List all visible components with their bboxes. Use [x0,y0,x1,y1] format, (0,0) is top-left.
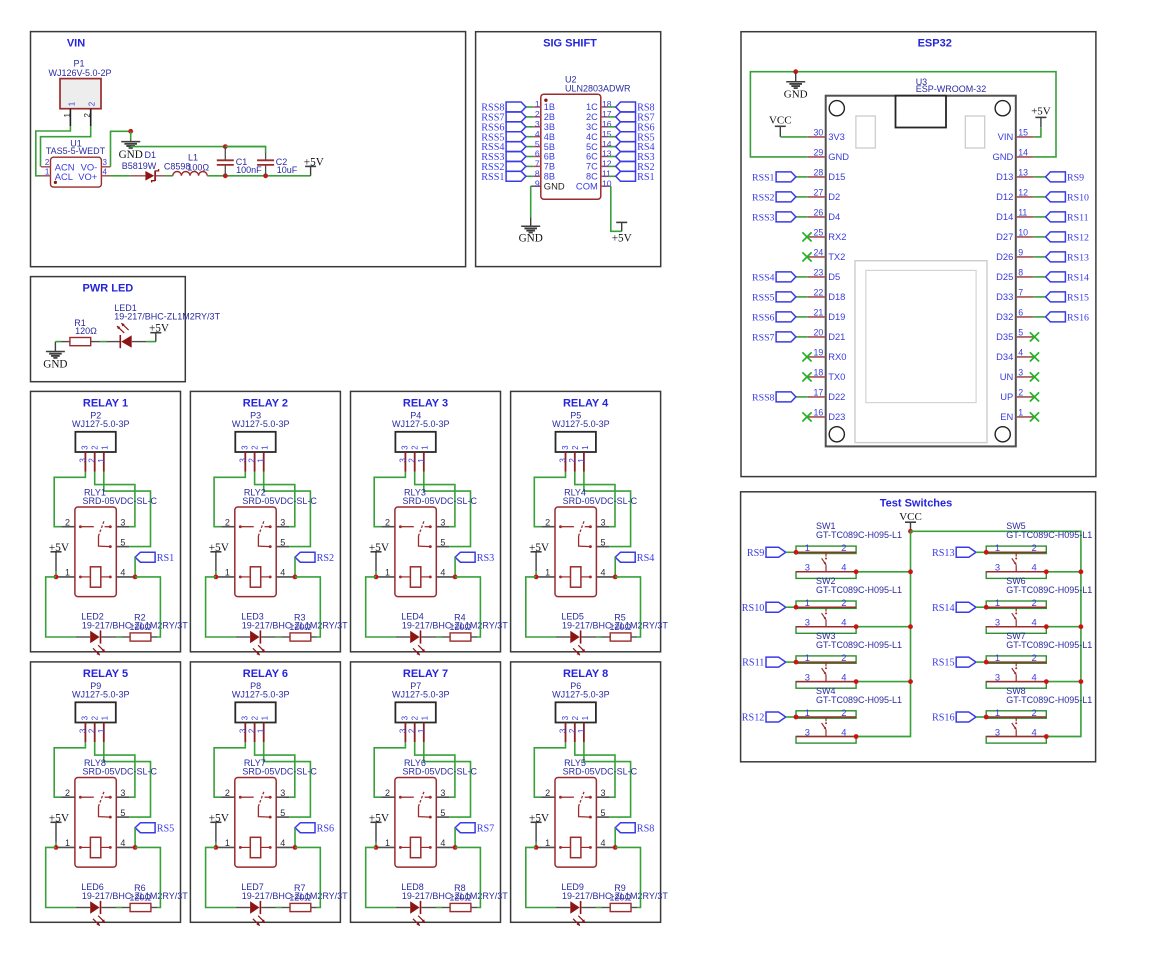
wire P7.2 to RLY6.3 [415,742,455,797]
svg-text:2: 2 [88,458,97,463]
RLY6 pin 4 [436,838,455,848]
wire top rail caps to ground [131,146,266,148]
U2 pin 15 4C [586,129,612,142]
svg-text:ACL: ACL [55,171,73,182]
net flag RS12 [742,712,786,724]
switch SW1 GT-TC089C-H095-L1 [796,521,902,578]
LED LED8 19-217/BHC-ZL1M2RY/3T [396,882,508,926]
P8 pin 3 [238,722,247,742]
svg-text:D18: D18 [828,291,845,302]
resistor R7 120ohm [281,883,317,911]
svg-text:RS10: RS10 [742,603,765,614]
svg-text:RS6: RS6 [317,823,335,834]
wire RS2 to pin4 [294,557,296,577]
svg-text:4: 4 [841,562,846,573]
node +5V junction [214,845,219,850]
svg-text:WJ127-5.0-3P: WJ127-5.0-3P [392,690,450,700]
svg-text:SRD-05VDC-SL-C: SRD-05VDC-SL-C [242,496,317,506]
svg-text:26: 26 [814,208,824,218]
svg-text:1: 1 [385,838,390,848]
svg-text:RS15: RS15 [932,658,955,669]
power symbol +5V (RELAY 8) [529,812,550,842]
svg-text:+5V: +5V [1031,106,1051,118]
svg-text:D14: D14 [996,211,1013,222]
net flag RS11 [742,657,786,669]
wire SW3.4 to VCC rail [856,681,910,683]
net flag RS5 [616,132,655,144]
no-connect X pin 2 [1030,392,1039,401]
net flag RSS7 [481,112,526,124]
wire LED to R [436,636,441,638]
svg-text:COM: COM [576,181,598,192]
wire to RS3 [608,156,615,158]
wire P6.2 to RLY5.3 [575,742,615,797]
svg-text:28: 28 [814,168,824,178]
svg-text:RS11: RS11 [1067,213,1089,224]
wire to RS2 [608,165,615,167]
svg-text:120Ω: 120Ω [449,622,471,632]
svg-text:TAS5-5-WEDT: TAS5-5-WEDT [46,146,106,156]
relay RLY2 SRD-05VDC-SL-C [235,488,318,597]
wire to RSS2 [796,196,808,198]
U3 pin 22 D18 [808,288,846,303]
svg-text:RSS5: RSS5 [752,293,775,304]
U3 pin 12 D12 [996,188,1034,203]
svg-text:RSS7: RSS7 [752,333,775,344]
svg-text:RS1: RS1 [637,172,655,183]
svg-text:RSS1: RSS1 [481,172,504,183]
svg-text:2: 2 [1031,652,1036,663]
RLY1 pin 4 [116,568,135,578]
wire to RSS7 [796,336,808,338]
svg-text:RS2: RS2 [317,553,335,564]
wire junction down to ground [130,131,132,140]
RLY5 pin 3 [596,788,609,798]
svg-text:SRD-05VDC-SL-C: SRD-05VDC-SL-C [83,766,158,776]
svg-text:1: 1 [225,838,230,848]
resistor R5 120ohm [602,613,638,641]
net flag RS15 [1046,292,1089,304]
connector P4 [392,410,450,452]
svg-text:RX2: RX2 [828,231,846,242]
P1 pin 2 [83,109,92,126]
svg-text:RS12: RS12 [1067,233,1089,244]
net flag RS5 [135,823,174,835]
power symbol +5V (RELAY 1) [49,542,70,572]
U3 pin 2 UP [1000,388,1034,403]
svg-text:2: 2 [1031,597,1036,608]
wire SW6.4 to VCC rail [1046,626,1081,628]
node SW1 pin4 [854,569,859,574]
U2 pin 1 1B [533,99,555,112]
svg-text:29: 29 [814,148,824,158]
svg-text:RELAY 8: RELAY 8 [563,668,608,680]
U2 pin 7 7B [533,159,555,172]
wire to RS7 [608,116,615,118]
svg-text:5: 5 [535,139,540,149]
RLY8 pin 1 [56,838,75,848]
svg-text:3: 3 [401,715,410,720]
wire P1 pin1 to U1 ACL [36,126,71,176]
net flag RSS5 [752,292,796,304]
wire to RS14 [1034,276,1046,278]
U3 pin 9 D26 [996,248,1034,263]
RLY5 pin 1 [536,838,555,848]
wire to RS6 [608,126,615,128]
U3 pin 29 GND [808,148,850,163]
wire +5V to pin1 [375,842,377,847]
svg-text:RS9: RS9 [747,548,765,559]
U2 pin 6 6B [533,149,555,162]
wire RS13 to SW5.1 [976,551,986,553]
svg-text:2: 2 [1031,542,1036,553]
net flag RS6 [295,823,334,835]
wire P2.3 to RLY1.2 [54,472,85,527]
switch SW2 GT-TC089C-H095-L1 [796,576,902,633]
svg-text:3: 3 [280,518,285,528]
svg-text:GND: GND [119,149,143,161]
P6 pin 1 [577,722,586,742]
wire VCC to pin30 [780,136,807,138]
svg-text:2: 2 [45,158,50,167]
svg-text:2: 2 [545,518,550,528]
svg-text:3: 3 [440,788,445,798]
wire to RS10 [1034,196,1046,198]
svg-text:1: 1 [581,445,590,450]
U3 pin 30 3V3 [808,128,845,143]
RLY4 pin 5 [596,537,609,547]
RLY5 pin 5 [596,808,609,818]
wire R to pin4 [135,577,160,637]
RLY6 pin 2 [381,788,395,798]
net flag RS1 [135,552,174,564]
svg-text:VCC: VCC [899,511,922,523]
wire LED to R [596,636,601,638]
wire +5V to pin1 [535,842,537,847]
RLY7 pin 1 [216,838,235,848]
RLY1 pin 5 [116,537,129,547]
U3 pin 15 VIN [998,128,1034,143]
node +5V junction [54,575,59,580]
node +5V junction [54,845,59,850]
RLY8 pin 5 [116,808,129,818]
wire to RSS8 [796,396,808,398]
svg-text:4: 4 [535,129,540,139]
svg-text:3: 3 [995,671,1000,682]
net flag RSS4 [481,142,526,154]
node rail junction SW3 [908,679,913,684]
svg-text:D19: D19 [828,311,845,322]
RLY3 pin 1 [376,568,395,578]
wire to RS5 [608,136,615,138]
svg-text:120Ω: 120Ω [449,893,471,903]
connector P3 [232,410,290,452]
RLY6 pin 5 [436,808,449,818]
svg-text:WJ127-5.0-3P: WJ127-5.0-3P [232,419,290,429]
svg-text:2: 2 [411,715,420,720]
node +5V junction [534,575,539,580]
svg-text:D22: D22 [828,391,845,402]
wire +5V to pin1 [55,842,57,847]
svg-text:5: 5 [440,537,445,547]
svg-text:120Ω: 120Ω [609,893,631,903]
svg-text:24: 24 [814,248,824,258]
svg-text:WJ127-5.0-3P: WJ127-5.0-3P [72,419,130,429]
svg-text:ULN2803ADWR: ULN2803ADWR [565,84,631,94]
wire pin9 to ground [530,186,532,217]
resistor R9 120ohm [602,883,638,911]
wire RS9 to SW1.1 [786,551,796,553]
svg-text:+5V: +5V [209,812,230,824]
svg-text:4: 4 [120,838,125,848]
svg-text:10uF: 10uF [277,165,298,175]
LED LED7 19-217/BHC-ZL1M2RY/3T [236,882,348,926]
no-connect X pin 5 [1030,332,1039,341]
svg-text:1: 1 [417,458,426,463]
U3 pin 1 EN [1000,408,1034,423]
wire to RS1 [608,175,615,177]
RLY3 pin 3 [436,518,449,528]
wire pin1 to LED loop [46,847,76,907]
svg-text:100nF: 100nF [236,165,262,175]
svg-text:4: 4 [841,726,846,737]
node +5V junction [214,575,219,580]
power symbol +5V (VIN) [304,156,324,176]
svg-text:120Ω: 120Ω [129,893,151,903]
wire P2.2 to RLY1.3 [95,472,135,527]
svg-text:+5V: +5V [529,812,550,824]
svg-text:GT-TC089C-H095-L1: GT-TC089C-H095-L1 [1006,585,1092,595]
wire L1 to +5V rail [207,175,310,177]
svg-text:3: 3 [78,728,87,733]
node pin4 junction [293,845,298,850]
svg-text:GND: GND [992,151,1013,162]
svg-text:SRD-05VDC-SL-C: SRD-05VDC-SL-C [242,766,317,776]
section box RELAY 4 [511,391,661,651]
wire to RS16 [1034,316,1046,318]
svg-text:5: 5 [440,808,445,818]
svg-text:GT-TC089C-H095-L1: GT-TC089C-H095-L1 [1006,640,1092,650]
LED LED4 19-217/BHC-ZL1M2RY/3T [396,612,508,656]
svg-text:1: 1 [63,113,72,118]
svg-text:1: 1 [67,101,76,106]
svg-text:UP: UP [1000,391,1013,402]
RLY8 pin 4 [116,838,135,848]
svg-text:+5V: +5V [369,542,390,554]
relay RLY3 SRD-05VDC-SL-C [395,488,478,597]
P9 pin 3 [78,722,87,742]
svg-text:ESP32: ESP32 [918,37,952,49]
svg-text:5: 5 [280,808,285,818]
wire LED to R [116,907,121,909]
wire P2.1 to RLY1.5 [104,472,151,547]
svg-text:RS10: RS10 [1067,193,1089,204]
net flag RS12 [1046,232,1089,244]
switch SW6 GT-TC089C-H095-L1 [986,576,1092,633]
net flag RS13 [1046,252,1089,264]
section box RELAY 7 [351,662,501,922]
darlington array U2 ULN2803ADWR [541,74,631,199]
wire RS10 to SW2.1 [786,606,796,608]
svg-text:3: 3 [81,715,90,720]
node SW8 pin1 [984,715,989,720]
wire D1 to L1 [165,175,173,177]
ground symbol GND (VIN) [119,140,143,161]
wire P9.1 to RLY8.5 [104,742,151,817]
svg-text:4: 4 [440,568,445,578]
section box RELAY 1 [31,391,181,651]
svg-text:D1: D1 [145,150,157,160]
wire P8.3 to RLY7.2 [214,742,245,797]
wire P7.1 to RLY6.5 [424,742,471,817]
RLY3 pin 2 [381,518,395,528]
node rail junction SW7 [1079,679,1084,684]
node +5V junction [374,845,379,850]
svg-text:8: 8 [1018,268,1023,278]
svg-text:1: 1 [995,652,1000,663]
svg-text:1: 1 [577,458,586,463]
svg-text:4C: 4C [586,132,598,142]
svg-text:3: 3 [600,788,605,798]
svg-text:1: 1 [545,838,550,848]
svg-text:12: 12 [1018,188,1028,198]
svg-text:3: 3 [78,458,87,463]
wire pin1 to LED loop [46,577,76,637]
wire to RSS5 [796,296,808,298]
svg-text:120Ω: 120Ω [609,622,631,632]
svg-text:3: 3 [559,728,568,733]
wire U1 pin4 to D1 [111,175,131,177]
net flag RS6 [616,122,655,134]
node SW7 pin1 [984,660,989,665]
net flag RSS3 [481,152,526,164]
net flag RSS2 [481,161,526,173]
node SW5 pin1 [984,550,989,555]
resistor R6 120ohm [121,883,157,911]
node rail junction SW6 [1079,624,1084,629]
svg-text:120Ω: 120Ω [289,622,311,632]
svg-text:VIN: VIN [67,37,85,49]
power symbol +5V (SIG SHIFT) [612,222,632,244]
power symbol VCC (ESP32) [769,115,792,137]
node SW7 pin4 [1044,679,1049,684]
svg-text:WJ127-5.0-3P: WJ127-5.0-3P [72,690,130,700]
relay RLY5 SRD-05VDC-SL-C [555,758,638,867]
net flag RS1 [616,171,655,183]
P7 pin 1 [417,722,426,742]
power module U1 TAS5-5-WEDT [41,139,111,187]
U3 pin 14 GND [992,148,1033,163]
svg-text:D25: D25 [996,271,1013,282]
wire to RS4 [608,146,615,148]
net flag RSS2 [752,192,796,204]
net flag RS9 [1046,172,1084,184]
svg-text:GND: GND [544,181,565,192]
svg-text:4: 4 [1031,562,1036,573]
wire pin1 to LED loop [526,577,556,637]
wire P1 pin2 to U1 ACN [41,126,91,167]
svg-text:1: 1 [995,707,1000,718]
U3 pin 18 TX0 [808,368,846,383]
svg-text:RS1: RS1 [157,553,175,564]
wire to RS12 [1034,236,1046,238]
P1 pin 1 [63,109,72,126]
wire U1 pin3 to GND junction [111,131,131,167]
svg-text:RELAY 1: RELAY 1 [83,398,128,410]
U3 pin 28 D15 [808,168,846,183]
svg-text:RELAY 6: RELAY 6 [243,668,288,680]
power symbol +5V (RELAY 3) [369,542,390,572]
ground symbol GND (SIG SHIFT) [519,217,543,244]
power symbol +5V (RELAY 6) [209,812,230,842]
svg-text:+5V: +5V [369,812,390,824]
svg-text:D33: D33 [996,291,1013,302]
svg-text:10: 10 [1018,228,1028,238]
svg-text:120Ω: 120Ω [289,893,311,903]
svg-text:2: 2 [91,715,100,720]
RLY3 pin 4 [436,568,455,578]
svg-text:1: 1 [101,715,110,720]
svg-text:1: 1 [261,715,270,720]
RLY7 pin 4 [276,838,295,848]
svg-text:2: 2 [841,597,846,608]
svg-text:7: 7 [1018,288,1023,298]
wire LED to R [116,636,121,638]
wire pin10 to +5V [611,186,622,231]
wire R1 to LED1 [100,341,106,343]
module U3 ESP-WROOM-32 [826,77,1016,447]
svg-text:3: 3 [398,728,407,733]
relay RLY1 SRD-05VDC-SL-C [75,488,158,597]
wire P6.1 to RLY5.5 [584,742,631,817]
svg-text:GND: GND [784,89,808,101]
wire P7.3 to RLY6.2 [374,742,405,797]
net flag RS2 [616,161,655,173]
U2 pin 8 8B [533,169,555,182]
svg-text:3: 3 [805,562,810,573]
wire +5V to pin1 [375,572,377,577]
svg-text:RS11: RS11 [742,658,764,669]
svg-text:1: 1 [65,838,70,848]
net flag RS4 [615,552,654,564]
P9 pin 1 [97,722,106,742]
relay RLY4 SRD-05VDC-SL-C [555,488,638,597]
switch SW3 GT-TC089C-H095-L1 [796,631,902,688]
wire P5.2 to RLY4.3 [575,472,615,527]
svg-text:4: 4 [280,838,285,848]
P3 pin 3 [238,452,247,472]
svg-text:7: 7 [535,159,540,169]
node rail junction SW5 [1079,569,1084,574]
U3 pin 20 D21 [808,328,846,343]
svg-text:3: 3 [241,445,250,450]
svg-text:3: 3 [238,458,247,463]
svg-text:2: 2 [251,445,260,450]
svg-text:2: 2 [248,458,257,463]
svg-text:GT-TC089C-H095-L1: GT-TC089C-H095-L1 [816,585,902,595]
svg-text:RS8: RS8 [637,823,655,834]
U3 pin 11 D14 [996,208,1034,223]
svg-text:13: 13 [1018,168,1028,178]
node +5V junction [374,575,379,580]
svg-text:5: 5 [1018,328,1023,338]
node C2 bottom junction [263,173,268,178]
wire R to pin4 [615,847,640,907]
section box Test Switches [741,492,1096,762]
capacitor C1 100nF [217,147,262,176]
RLY1 pin 1 [56,568,75,578]
wire +5V to pin15 VIN [1034,127,1041,137]
